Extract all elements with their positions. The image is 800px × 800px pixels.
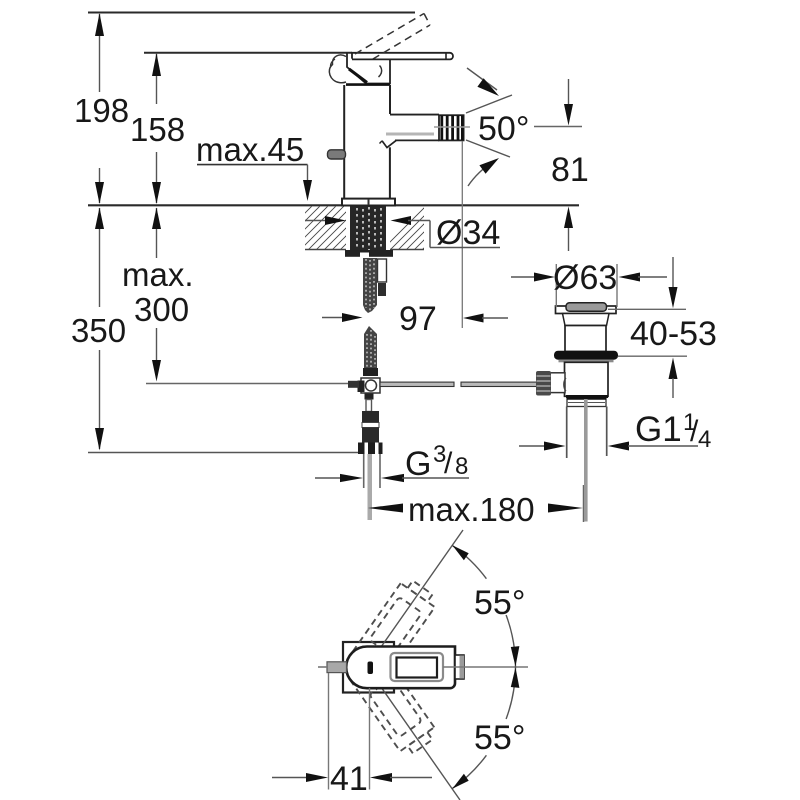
svg-text:max.: max. xyxy=(122,256,194,293)
svg-text:/: / xyxy=(444,447,453,480)
pop-up rod horizontal xyxy=(348,381,537,388)
drain pop-up cap xyxy=(566,303,607,312)
mounting plane line xyxy=(88,204,579,206)
arc 55 upper xyxy=(452,545,519,667)
dim max.180 xyxy=(368,485,584,522)
dim 41 xyxy=(272,673,432,790)
dim G3/8 arrows xyxy=(315,474,469,482)
countertop hatched section left xyxy=(305,249,424,251)
drain lower body xyxy=(565,362,609,396)
svg-text:198: 198 xyxy=(74,92,129,129)
dashed body rotated down xyxy=(338,638,440,758)
dim 40-53 xyxy=(608,257,687,398)
hose lower braided xyxy=(363,326,378,376)
wire spray witness vertical xyxy=(461,141,463,328)
side stub top view xyxy=(327,662,347,673)
spray nozzle threads xyxy=(439,115,464,140)
svg-text:81: 81 xyxy=(551,151,589,189)
svg-text:8: 8 xyxy=(455,453,468,480)
drain knurled knob xyxy=(536,371,551,396)
55deg diagonal upper xyxy=(367,530,463,667)
temp limiter button xyxy=(328,150,346,159)
hex nut xyxy=(358,443,383,455)
svg-text:max.180: max.180 xyxy=(408,491,535,528)
pop-up ball joint xyxy=(358,378,381,400)
mounting washer nut xyxy=(345,250,393,258)
dim 81 xyxy=(564,79,573,251)
label G1 1/4 xyxy=(635,409,711,453)
wire ref line top (198 level) xyxy=(88,12,415,14)
label G3/8 xyxy=(405,441,468,483)
svg-text:50°: 50° xyxy=(478,110,529,148)
svg-text:4: 4 xyxy=(698,426,711,453)
dim Ø63 xyxy=(511,264,667,307)
dim 158 vertical line xyxy=(152,53,161,382)
drain side port xyxy=(550,373,566,393)
base square top view xyxy=(343,642,394,693)
svg-text:max.45: max.45 xyxy=(196,131,304,168)
svg-text:55°: 55° xyxy=(474,584,525,622)
shank threaded xyxy=(350,207,386,251)
50 deg construction upper xyxy=(466,68,512,113)
svg-text:41: 41 xyxy=(330,760,368,798)
svg-text:350: 350 xyxy=(71,312,126,349)
dim G1 1/4 arrows xyxy=(519,442,698,451)
svg-text:55°: 55° xyxy=(474,719,525,757)
drain neck xyxy=(563,314,610,326)
svg-text:300: 300 xyxy=(134,291,189,328)
drain mid cylinder xyxy=(565,326,606,352)
wire ref line max300 bottom xyxy=(146,383,348,385)
window inner xyxy=(397,658,438,678)
hose second tail xyxy=(378,259,387,296)
dim Ø34 arrows xyxy=(305,216,500,248)
spray stub top view xyxy=(455,655,464,679)
check valve fitting xyxy=(362,400,379,443)
svg-text:40-53: 40-53 xyxy=(630,315,717,353)
wire ref line 350 bottom xyxy=(88,452,358,454)
drain tailpipe xyxy=(567,399,607,522)
wire 50deg leader xyxy=(534,126,582,128)
G3/8 tails xyxy=(364,454,380,520)
svg-text:158: 158 xyxy=(130,111,185,148)
drain drum rim xyxy=(556,306,617,314)
arc 55 lower xyxy=(452,667,519,789)
faucet body xyxy=(344,85,390,199)
lever raised dashed xyxy=(355,14,430,66)
window outer xyxy=(391,653,444,681)
drain locknut xyxy=(567,398,606,406)
dashed body rotated up xyxy=(338,576,440,696)
dim 97 xyxy=(322,313,508,323)
lever mark xyxy=(368,662,374,675)
dim 198 vertical line xyxy=(95,13,104,451)
svg-text:Ø63: Ø63 xyxy=(553,259,617,297)
svg-text:97: 97 xyxy=(399,300,437,338)
55deg diagonal lower xyxy=(367,667,460,800)
lever handle body xyxy=(329,53,390,84)
wire ref line 158 level xyxy=(144,52,352,54)
spray axis tick xyxy=(434,126,470,128)
cartridge line xyxy=(346,83,390,86)
base plate xyxy=(342,199,395,206)
spray arm xyxy=(380,115,440,148)
svg-text:G1: G1 xyxy=(635,410,682,449)
svg-text:Ø34: Ø34 xyxy=(436,214,500,252)
centerline right xyxy=(443,666,528,668)
centerline left xyxy=(318,666,327,668)
50 deg construction lower xyxy=(466,140,510,186)
lever bar horizontal xyxy=(352,53,453,60)
faucet body top view xyxy=(346,647,455,689)
drain flange black xyxy=(554,351,618,360)
hose upper braided xyxy=(363,258,377,313)
